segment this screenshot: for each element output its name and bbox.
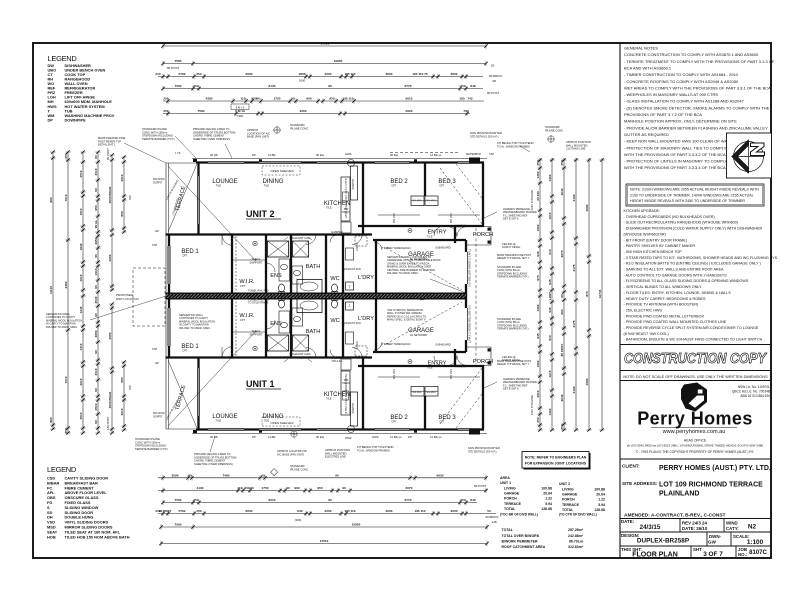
svg-text:250: 250 — [163, 109, 168, 113]
svg-text:- FLYSCREENS TO ALL GLASS SLID: - FLYSCREENS TO ALL GLASS SLIDING DOORS … — [624, 279, 749, 283]
svg-text:2010: 2010 — [79, 378, 83, 385]
svg-text:ENS: ENS — [270, 321, 282, 327]
svg-text:250: 250 — [193, 498, 198, 502]
svg-text:1010: 1010 — [94, 268, 98, 275]
svg-text:- SLIDE OUT RECIRCULATING RANG: - SLIDE OUT RECIRCULATING RANGEHOOD (W'H… — [624, 221, 738, 225]
svg-text:- (S) DENOTES SMOKE DETECTOR,: - (S) DENOTES SMOKE DETECTOR, SMOKE ALAR… — [624, 105, 770, 110]
dimension line y=46 — [163, 45, 486, 47]
svg-text:90: 90 — [94, 420, 98, 424]
svg-text:BATH: BATH — [306, 329, 321, 335]
svg-text:3000 BRAR: 3000 BRAR — [108, 186, 112, 203]
svg-text:CPT: CPT — [391, 420, 397, 424]
svg-text:90 BRICK: 90 BRICK — [485, 515, 498, 519]
svg-text:4080: 4080 — [585, 378, 589, 385]
svg-text:3000: 3000 — [386, 72, 393, 76]
svg-text:900 VSD: 900 VSD — [450, 369, 453, 379]
svg-text:- FLOOR TILES: ENTRY, KITCHEN,: - FLOOR TILES: ENTRY, KITCHEN, LOUNGE, D… — [624, 291, 732, 295]
svg-text:WC: WC — [128, 385, 132, 390]
dimension line x=552 — [551, 158, 553, 430]
svg-text:250: 250 — [196, 509, 201, 513]
svg-text:CPT: CPT — [182, 349, 188, 353]
svg-text:90: 90 — [94, 350, 98, 354]
svg-text:EXHAUST FAN: EXHAUST FAN — [290, 236, 311, 240]
window height note box — [626, 184, 764, 206]
svg-text:90 HL: 90 HL — [94, 220, 98, 229]
svg-text:SITE ADDRESS:: SITE ADDRESS: — [622, 481, 658, 486]
svg-text:890: 890 — [49, 197, 53, 202]
svg-text:1310: 1310 — [79, 343, 83, 350]
svg-text:250: 250 — [536, 417, 540, 422]
svg-text:CPT: CPT — [439, 420, 445, 424]
svg-text:5 M 13: 5 M 13 — [236, 106, 245, 110]
svg-text:900: 900 — [306, 97, 311, 101]
svg-text:- BATHROOM, ENSUITE & WC EXHAU: - BATHROOM, ENSUITE & WC EXHAUST FANS CO… — [624, 338, 763, 342]
svg-text:(W'HOUSE WSF6602XR): (W'HOUSE WSF6602XR) — [624, 232, 666, 236]
svg-text:CPT: CPT — [240, 318, 246, 322]
svg-text:CPT: CPT — [439, 184, 445, 188]
svg-text:- R3.0 INSULATION BATTS TO (EN: - R3.0 INSULATION BATTS TO (ENTIRE CEILI… — [624, 262, 761, 266]
svg-text:50: 50 — [491, 64, 495, 68]
svg-text:MANHOLE POSITION APPROX. ONLY,: MANHOLE POSITION APPROX. ONLY, DETERMINE… — [624, 119, 737, 124]
svg-text:5.94: 5.94 — [598, 503, 605, 507]
svg-text:1615: 1615 — [548, 370, 552, 377]
svg-text:DP: DP — [408, 435, 412, 439]
svg-text:Perry Homes: Perry Homes — [637, 409, 752, 429]
svg-text:- KEEP NON WALL-MOUNTED HWS 10: - KEEP NON WALL-MOUNTED HWS 100 CLEAR OF… — [624, 139, 735, 144]
dimension line y=113.5 — [163, 113, 470, 115]
svg-text:TILE: TILE — [264, 184, 270, 188]
svg-text:AREA: AREA — [500, 476, 510, 480]
svg-text:700 A.F.L: 700 A.F.L — [331, 359, 343, 363]
svg-text:700 A.F.L: 700 A.F.L — [331, 233, 343, 237]
svg-text:80 POST: 80 POST — [167, 66, 180, 70]
svg-text:5.94: 5.94 — [545, 502, 552, 506]
svg-text:SHT: SHT — [693, 547, 702, 552]
svg-text:SHEETING OVER OPENINGS: SHEETING OVER OPENINGS — [193, 137, 230, 141]
svg-text:1.22: 1.22 — [598, 498, 605, 502]
svg-text:7010: 7010 — [64, 194, 68, 201]
svg-text:1840: 1840 — [79, 243, 83, 250]
svg-text:90: 90 — [94, 388, 98, 392]
svg-text:- SARKING TO ALL EXT. WALLS AN: - SARKING TO ALL EXT. WALLS AND ENTIRE R… — [624, 268, 725, 272]
svg-text:900 VSD: 900 VSD — [450, 213, 453, 223]
certifier logo box — [727, 133, 772, 178]
svg-text:3160: 3160 — [572, 386, 576, 393]
dimension line y=543.5 — [161, 543, 487, 545]
svg-text:HOB: HOB — [47, 534, 56, 539]
svg-text:84X: 84X — [297, 509, 303, 513]
svg-text:100.88: 100.88 — [541, 487, 552, 491]
svg-text:90: 90 — [342, 486, 346, 490]
svg-text:110: 110 — [238, 486, 243, 490]
svg-text:500 NOM: 500 NOM — [153, 411, 165, 415]
svg-text:210: 210 — [155, 72, 160, 76]
svg-text:90: 90 — [94, 285, 98, 289]
construction copy banner — [620, 344, 771, 346]
svg-text:2510: 2510 — [79, 412, 83, 419]
svg-text:3010: 3010 — [536, 390, 540, 397]
svg-text:CLOTHES LINE: CLOTHES LINE — [566, 147, 586, 151]
svg-text:1615: 1615 — [548, 212, 552, 219]
svg-text:CONSTRUCTION COPY: CONSTRUCTION COPY — [624, 350, 768, 367]
dimension line x=589 — [588, 158, 590, 430]
svg-text:AMENDED: A-CONTRACT, B-REV., C: AMENDED: A-CONTRACT, B-REV., C-CONST — [624, 513, 726, 519]
dimension line y=76.5 — [158, 76, 483, 78]
svg-text:6770: 6770 — [405, 498, 412, 502]
svg-text:WITH THE PROVISIONS OF PART 3.: WITH THE PROVISIONS OF PART 3.3.3.2 OF T… — [624, 152, 726, 157]
svg-text:12 Blk ss: 12 Blk ss — [430, 153, 442, 157]
svg-text:742: 742 — [467, 97, 472, 101]
svg-text:80 POST: 80 POST — [474, 484, 487, 488]
svg-text:2200: 2200 — [325, 72, 332, 76]
svg-text:TO AL. WINDOW FRAMES: TO AL. WINDOW FRAMES — [357, 448, 390, 452]
svg-text:PROV: PROV — [342, 210, 350, 214]
svg-text:195 110: 195 110 — [342, 97, 353, 101]
svg-text:UNIT 1: UNIT 1 — [500, 481, 511, 485]
svg-text:BATH: BATH — [306, 264, 321, 270]
dimension line y=513.5 — [158, 513, 496, 515]
svg-text:DATE:: DATE: — [621, 519, 635, 524]
svg-text:3590: 3590 — [172, 474, 179, 478]
svg-text:- 900 HIGH KITCHEN BENCH TOP: - 900 HIGH KITCHEN BENCH TOP — [624, 250, 683, 254]
svg-text:SOFFIT CEVEL: SOFFIT CEVEL — [502, 245, 521, 249]
svg-text:HEAD OFFICE: HEAD OFFICE — [684, 439, 707, 443]
svg-text:2640: 2640 — [560, 394, 564, 401]
svg-text:TERMITE BARRIER (TYP.): TERMITE BARRIER (TYP.) — [497, 327, 529, 331]
svg-text:- GLASS INSTALLATION TO COMPLY: - GLASS INSTALLATION TO COMPLY WITH AS12… — [624, 99, 745, 104]
svg-text:8107C: 8107C — [749, 550, 767, 556]
svg-text:TILE: TILE — [427, 366, 433, 370]
title column divider — [619, 43, 621, 558]
svg-text:6210 PITCHING: 6210 PITCHING — [530, 190, 534, 210]
svg-text:2175: 2175 — [572, 320, 576, 327]
engineers note box — [524, 453, 591, 470]
svg-text:870: 870 — [585, 291, 589, 296]
svg-text:250: 250 — [196, 72, 201, 76]
svg-text:WC: WC — [128, 195, 132, 200]
svg-text:FRL REF TO MANU SPEC.: FRL REF TO MANU SPEC. — [46, 325, 78, 329]
svg-text:(8 %W HEAT/7 %W COOL): (8 %W HEAT/7 %W COOL) — [624, 332, 669, 336]
dimension line x=112 — [111, 155, 113, 290]
svg-text:CPT: CPT — [182, 254, 188, 258]
svg-text:UNIT 2: UNIT 2 — [246, 209, 275, 219]
svg-text:242.88m²: 242.88m² — [568, 534, 584, 538]
svg-text:GP: GP — [155, 229, 159, 233]
svg-text:- PROVIDE REVERSE CYCLE SPLIT: - PROVIDE REVERSE CYCLE SPLIT SYSTEM AIR… — [624, 326, 759, 330]
svg-text:ENS: ENS — [270, 273, 282, 279]
svg-text:1360: 1360 — [536, 304, 540, 311]
svg-text:TO STUD FRAME: TO STUD FRAME — [248, 301, 269, 304]
svg-text:250: 250 — [560, 424, 564, 429]
sheet border frame — [33, 43, 771, 558]
svg-text:20.64: 20.64 — [543, 492, 552, 496]
svg-text:- TIMBER CONSTRUCTION TO COMPL: - TIMBER CONSTRUCTION TO COMPLY WITH AS1… — [624, 72, 739, 77]
svg-text:GW: GW — [708, 540, 717, 545]
svg-text:5 M 13: 5 M 13 — [235, 109, 245, 113]
svg-text:PERRY HOMES (AUST.) PTY. LTD.: PERRY HOMES (AUST.) PTY. LTD. — [659, 465, 771, 472]
svg-text:90: 90 — [328, 498, 332, 502]
svg-text:16740: 16740 — [598, 289, 602, 298]
svg-text:06 Elq: 06 Elq — [316, 435, 324, 439]
svg-text:PORCH: PORCH — [562, 498, 575, 502]
svg-text:945: 945 — [548, 279, 552, 284]
svg-text:840: 840 — [470, 498, 475, 502]
svg-text:900 MSD: 900 MSD — [426, 392, 436, 394]
svg-text:6630: 6630 — [437, 474, 444, 478]
svg-text:90: 90 — [328, 84, 332, 88]
svg-text:TAP: TAP — [152, 243, 157, 247]
svg-text:TAP: TAP — [152, 347, 157, 351]
svg-text:FOR EXPANSION JOINT LOCATIONS: FOR EXPANSION JOINT LOCATIONS — [525, 462, 587, 466]
svg-text:NSW Lic. No. 110970L: NSW Lic. No. 110970L — [738, 385, 770, 389]
svg-text:945: 945 — [536, 251, 540, 256]
svg-text:TILE: TILE — [326, 397, 332, 401]
svg-text:TO AL. WINDOW FRAMES: TO AL. WINDOW FRAMES — [497, 144, 530, 148]
svg-text:50: 50 — [487, 509, 491, 513]
svg-text:2950: 2950 — [94, 237, 98, 244]
svg-text:950: 950 — [317, 486, 322, 490]
svg-text:GUTTER AS REQUIRED: GUTTER AS REQUIRED — [624, 132, 669, 137]
svg-text:LINEN: LINEN — [355, 341, 359, 349]
svg-text:MANU SPEC. & DETAIL B SHT 6: MANU SPEC. & DETAIL B SHT 6 — [387, 318, 426, 322]
svg-text:LDRY: LDRY — [548, 291, 552, 300]
svg-text:1805: 1805 — [299, 72, 306, 76]
svg-text:TAP: TAP — [489, 152, 494, 156]
svg-text:250: 250 — [560, 160, 564, 165]
svg-text:90: 90 — [250, 486, 254, 490]
svg-text:WC: WC — [330, 276, 339, 282]
svg-text:2050: 2050 — [108, 254, 112, 261]
svg-text:NOTE: 2100H WINDOWS ARE 2055 A: NOTE: 2100H WINDOWS ARE 2055 ACTUAL HEIG… — [630, 188, 759, 192]
svg-text:LIVING: LIVING — [504, 487, 516, 491]
svg-text:CATY:: CATY: — [726, 526, 739, 531]
svg-text:3 OF 7: 3 OF 7 — [703, 551, 723, 558]
svg-text:4080: 4080 — [585, 204, 589, 211]
svg-text:24/3/15: 24/3/15 — [640, 524, 661, 531]
svg-text:6000: 6000 — [246, 72, 253, 76]
svg-text:- PROTECTION OF MASONRY WALL T: - PROTECTION OF MASONRY WALL TIES TO COM… — [624, 145, 727, 150]
svg-text:EXHAUST FAN: EXHAUST FAN — [343, 322, 361, 325]
svg-text:DWN-: DWN- — [709, 534, 721, 539]
svg-text:ph (07)-5541 9400 fax (07)-552: ph (07)-5541 9400 fax (07)-5523 2881, 1/… — [627, 444, 764, 448]
svg-text:FRL REF TO MANU SPEC.: FRL REF TO MANU SPEC. — [179, 326, 211, 330]
svg-text:DP: DP — [48, 117, 54, 122]
svg-text:5762: 5762 — [179, 72, 186, 76]
dimension line y=101 — [163, 100, 484, 102]
svg-text:SOFFIT CEVEL: SOFFIT CEVEL — [502, 358, 521, 362]
svg-text:2510: 2510 — [94, 403, 98, 410]
svg-text:730: 730 — [463, 109, 468, 113]
svg-text:90: 90 — [560, 294, 564, 298]
svg-text:2510: 2510 — [79, 170, 83, 177]
svg-text:STD DETAILS 300 A.F.L: STD DETAILS 300 A.F.L — [468, 449, 498, 453]
svg-text:2530: 2530 — [94, 296, 98, 303]
svg-text:TOTAL: TOTAL — [562, 508, 574, 512]
svg-text:6770: 6770 — [405, 84, 412, 88]
svg-text:SUPPORT: SUPPORT — [250, 333, 263, 337]
svg-text:EXHAUST FAN: EXHAUST FAN — [290, 352, 311, 356]
svg-text:250: 250 — [460, 84, 465, 88]
svg-text:7560: 7560 — [175, 523, 182, 527]
svg-text:195 110: 195 110 — [414, 509, 425, 513]
svg-text:7560: 7560 — [175, 59, 182, 63]
svg-text:TERMITE BARRIER (TYP.): TERMITE BARRIER (TYP.) — [142, 137, 175, 141]
svg-text:- WEEPHOLES IN MASONRY WALLS A: - WEEPHOLES IN MASONRY WALLS AT 900 CTRS — [624, 92, 718, 97]
svg-text:PROVISIONS OF PART 3.7.2 OF TH: PROVISIONS OF PART 3.7.2 OF THE BCA — [624, 112, 702, 117]
svg-text:STD DETAILS 300 A.F.L: STD DETAILS 300 A.F.L — [470, 134, 500, 138]
svg-text:950: 950 — [120, 377, 124, 382]
svg-text:7590: 7590 — [198, 109, 205, 113]
dimension line y=88.5 — [163, 88, 483, 90]
svg-text:- BIT FRONT (ENTRY DOOR FRAME): - BIT FRONT (ENTRY DOOR FRAME) — [624, 238, 687, 242]
svg-text:- OVERHEAD CUPBOARDS (NO BULKH: - OVERHEAD CUPBOARDS (NO BULKHEADS OVER) — [624, 215, 715, 219]
svg-text:90: 90 — [94, 254, 98, 258]
proposed RWT location dashed box — [133, 268, 165, 326]
svg-text:2200: 2200 — [325, 509, 332, 513]
certifier logo — [734, 142, 764, 172]
svg-text:80 POST: 80 POST — [106, 148, 110, 160]
svg-text:GARAGE: GARAGE — [504, 492, 520, 496]
svg-text:3000: 3000 — [451, 72, 458, 76]
svg-text:3160: 3160 — [572, 194, 576, 201]
svg-text:RWT LOCATION: RWT LOCATION — [116, 297, 139, 301]
svg-text:945: 945 — [548, 307, 552, 312]
svg-text:66.70Lm: 66.70Lm — [569, 539, 583, 543]
svg-text:12 Blk ss: 12 Blk ss — [390, 435, 402, 439]
svg-text:GP: GP — [155, 361, 159, 365]
svg-text:(TOC BR OF DIVD WALL): (TOC BR OF DIVD WALL) — [500, 513, 538, 517]
svg-text:3000: 3000 — [451, 509, 458, 513]
svg-text:TILE: TILE — [216, 184, 222, 188]
svg-text:910: 910 — [548, 335, 552, 340]
dimension line x=83 — [82, 152, 84, 433]
svg-text:GARAGE: GARAGE — [562, 493, 578, 497]
svg-text:EXHAUST FAN: EXHAUST FAN — [343, 268, 361, 271]
svg-text:3010: 3010 — [94, 168, 98, 175]
svg-text:DUPLEX-BR258P: DUPLEX-BR258P — [637, 538, 690, 545]
svg-text:SHEETING (OVER OPENINGS): SHEETING (OVER OPENINGS) — [194, 462, 233, 466]
svg-text:TERMITE BARRIER (TYP.): TERMITE BARRIER (TYP.) — [135, 447, 168, 451]
svg-text:BCA AND WITH AS3660.1: BCA AND WITH AS3660.1 — [624, 65, 672, 70]
svg-text:11110: 11110 — [49, 286, 53, 294]
svg-text:06 Wk: 06 Wk — [210, 435, 219, 439]
svg-text:950: 950 — [244, 486, 249, 490]
svg-text:FLOOR PLAN: FLOOR PLAN — [632, 552, 678, 559]
svg-text:DET E SHT 6: DET E SHT 6 — [503, 387, 519, 391]
svg-text:20 640: 20 640 — [536, 191, 540, 201]
svg-text:1.22: 1.22 — [545, 497, 552, 501]
perry homes logo mark — [681, 383, 707, 412]
svg-text:3010: 3010 — [120, 174, 124, 181]
dimension line x=540 — [539, 158, 541, 430]
svg-text:DATE: 26/10: DATE: 26/10 — [682, 526, 708, 531]
svg-text:2150 TO UNDERSIDE OF TRIMMER.: 2150 TO UNDERSIDE OF TRIMMER. 1400H WIND… — [630, 193, 754, 197]
svg-text:1340: 1340 — [79, 306, 83, 313]
svg-text:PANTRY: PANTRY — [351, 178, 355, 189]
svg-text:7460: 7460 — [237, 114, 244, 118]
svg-text:8130: 8130 — [269, 84, 276, 88]
svg-text:90: 90 — [94, 313, 98, 317]
svg-text:CLIENT:: CLIENT: — [622, 464, 640, 469]
svg-text:6210 PITCHING: 6210 PITCHING — [530, 395, 534, 415]
svg-text:250: 250 — [536, 160, 540, 165]
svg-text:- PROVIDE PWD COATED WALL MOUN: - PROVIDE PWD COATED WALL MOUNTED CLOTHE… — [624, 320, 727, 324]
svg-text:6010: 6010 — [406, 97, 413, 101]
svg-text:T: T — [348, 285, 350, 289]
svg-text:195 110 70: 195 110 70 — [412, 72, 428, 76]
svg-text:80 POST: 80 POST — [487, 91, 500, 95]
dimension line x=602 — [601, 158, 603, 430]
svg-text:90: 90 — [286, 486, 290, 490]
svg-text:1360: 1360 — [536, 171, 540, 178]
svg-text:SUB-BOARD: SUB-BOARD — [435, 343, 451, 347]
svg-text:BASE (FAN UNIT): BASE (FAN UNIT) — [247, 135, 269, 139]
svg-text:110: 110 — [241, 97, 246, 101]
svg-text:945: 945 — [536, 333, 540, 338]
svg-text:90: 90 — [188, 474, 192, 478]
svg-text:SOFFIT: SOFFIT — [153, 415, 163, 419]
floor plan: unit 1 geometry (mirrored) — [166, 296, 492, 440]
svg-text:TOTAL: TOTAL — [502, 528, 514, 532]
svg-text:(TO CTR OF DIVD WALL): (TO CTR OF DIVD WALL) — [559, 513, 597, 517]
svg-text:TILE: TILE — [326, 206, 332, 210]
svg-text:12 Blk ss: 12 Blk ss — [430, 435, 442, 439]
svg-text:90: 90 — [94, 155, 98, 159]
svg-text:© - THIS PLAN IS THE COPYRIGHT: © - THIS PLAN IS THE COPYRIGHT PROPERTY … — [636, 450, 754, 454]
svg-text:90 POST: 90 POST — [159, 509, 172, 513]
svg-text:15950: 15950 — [334, 59, 343, 63]
svg-text:3010: 3010 — [120, 408, 124, 415]
svg-text:11 Blk: 11 Blk — [268, 435, 276, 439]
svg-text:190: 190 — [459, 97, 464, 101]
svg-text:148: 148 — [491, 520, 496, 524]
svg-text:1750: 1750 — [274, 97, 281, 101]
dimension line x=576 — [575, 158, 577, 430]
svg-text:128.68: 128.68 — [541, 507, 552, 511]
svg-text:TIMBER THRESHOLD: TIMBER THRESHOLD — [382, 246, 411, 250]
svg-text:1360: 1360 — [548, 408, 552, 415]
svg-text:KITCHEN UPGRADE:: KITCHEN UPGRADE: — [624, 209, 660, 213]
svg-text:3000 BRAR: 3000 BRAR — [108, 391, 112, 408]
svg-text:1560: 1560 — [536, 360, 540, 367]
svg-text:OPEN SHELVES: OPEN SHELVES — [271, 169, 294, 173]
svg-text:- PROVIDE PWD COATED METAL LET: - PROVIDE PWD COATED METAL LETTERBOX — [624, 314, 705, 318]
svg-text:OPEN SHELVES: OPEN SHELVES — [271, 421, 294, 425]
svg-text:B/WORK PERIMETER: B/WORK PERIMETER — [502, 539, 538, 543]
svg-text:LOT 109 RICHMOND TERRACE: LOT 109 RICHMOND TERRACE — [659, 482, 763, 489]
svg-text:ROOF CATCHMENT AREA: ROOF CATCHMENT AREA — [502, 545, 546, 549]
svg-text:NOTE: DO NOT SCALE OFF DRAWING: NOTE: DO NOT SCALE OFF DRAWINGS. USE ONL… — [623, 375, 768, 379]
svg-text:250: 250 — [460, 498, 465, 502]
svg-text:www.perryhomes.com.au: www.perryhomes.com.au — [662, 429, 726, 435]
svg-text:HEIGHT INSIDE REVEALS WITH 245: HEIGHT INSIDE REVEALS WITH 2450 TO UNDER… — [630, 199, 745, 203]
svg-text:90: 90 — [256, 97, 260, 101]
svg-text:950: 950 — [329, 97, 334, 101]
svg-text:90: 90 — [94, 188, 98, 192]
svg-text:DOWNPIPE: DOWNPIPE — [65, 117, 87, 122]
title block — [620, 458, 771, 460]
svg-text:7010: 7010 — [64, 376, 68, 383]
svg-text:250: 250 — [64, 428, 68, 433]
svg-text:250: 250 — [163, 97, 168, 101]
svg-text:848: 848 — [470, 84, 475, 88]
svg-text:1600: 1600 — [299, 79, 306, 83]
svg-text:WITH THE PROVISIONS OF PART 3.: WITH THE PROVISIONS OF PART 3.3.3.4 OF T… — [624, 165, 726, 170]
svg-text:950: 950 — [120, 211, 124, 216]
svg-text:ELECTRES LINE: ELECTRES LINE — [325, 455, 346, 459]
dimension line x=124 — [123, 157, 125, 232]
svg-text:TILE: TILE — [427, 235, 433, 239]
